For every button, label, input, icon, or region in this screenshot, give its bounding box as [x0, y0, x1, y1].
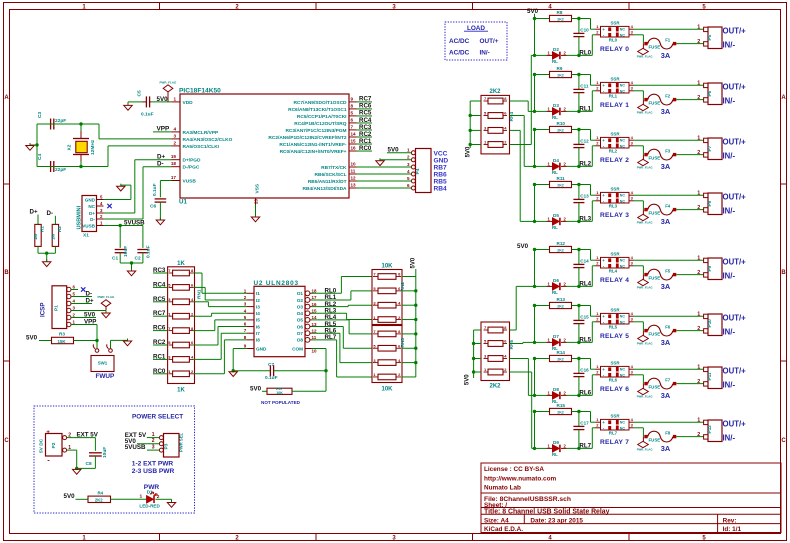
svg-text:SW1: SW1 — [98, 361, 108, 366]
svg-text:PIC18F14K50: PIC18F14K50 — [179, 88, 221, 95]
wire 5V0 rail channel 0 — [534, 19, 536, 56]
connector P12 body — [708, 420, 722, 442]
resistor 10K element 3 — [378, 302, 396, 308]
svg-text:F2: F2 — [665, 94, 671, 99]
svg-text:5V0: 5V0 — [465, 374, 471, 385]
svg-text:5VUSB: 5VUSB — [125, 444, 146, 451]
P4 pins — [411, 151, 415, 155]
svg-text:RB5: RB5 — [434, 179, 448, 186]
svg-text:2K2: 2K2 — [557, 73, 564, 77]
svg-text:C11: C11 — [580, 84, 589, 89]
svg-text:5: 5 — [73, 292, 76, 297]
svg-text:2: 2 — [697, 150, 700, 156]
svg-text:2: 2 — [564, 390, 567, 395]
svg-text:17: 17 — [312, 295, 318, 300]
wires RN1 to U2 inputs — [193, 272, 202, 274]
resistor R1 — [37, 215, 39, 225]
svg-text:O7: O7 — [297, 331, 304, 336]
svg-text:IN/-: IN/- — [723, 207, 736, 216]
svg-text:IN/-: IN/- — [723, 434, 736, 443]
svg-text:3: 3 — [631, 261, 634, 266]
svg-text:2: 2 — [596, 261, 599, 266]
resistor R8 — [550, 15, 572, 21]
svg-text:RC0: RC0 — [153, 368, 166, 375]
svg-text:2: 2 — [596, 30, 599, 35]
svg-text:12: 12 — [312, 328, 318, 333]
power flag at fuse F5 — [638, 279, 649, 285]
capacitor C6 — [155, 198, 167, 200]
svg-text:D6: D6 — [553, 278, 559, 283]
wire P2 pin1 to ground — [67, 449, 77, 451]
wire X1 VUSB 5VUSB net — [104, 225, 143, 227]
resistor 10K element 1 — [378, 274, 396, 280]
connector P1 ICSP body — [52, 286, 67, 329]
svg-text:2: 2 — [596, 86, 599, 91]
svg-text:4: 4 — [631, 190, 634, 195]
svg-text:3A: 3A — [661, 162, 671, 171]
svg-text:RELAY 5: RELAY 5 — [600, 333, 629, 340]
svg-text:4: 4 — [244, 308, 247, 313]
node RC1 label at RN1 — [153, 358, 168, 360]
svg-text:NC: NC — [620, 373, 626, 377]
svg-text:1: 1 — [484, 140, 487, 145]
svg-text:RC1: RC1 — [153, 353, 166, 360]
svg-text:1: 1 — [407, 148, 410, 153]
svg-text:RELAY 4: RELAY 4 — [600, 277, 629, 284]
svg-text:5V0: 5V0 — [527, 8, 539, 15]
ground at U1 VSS — [255, 215, 257, 218]
no-connect X1 NC — [107, 204, 111, 208]
svg-text:2: 2 — [564, 50, 567, 55]
svg-text:2: 2 — [564, 106, 567, 111]
resistor R9 — [550, 71, 572, 77]
svg-text:RELAY 2: RELAY 2 — [600, 157, 629, 164]
svg-text:RC1: RC1 — [359, 138, 372, 145]
border column ticks bottom — [159, 534, 161, 541]
power flag at P1 pin3 — [105, 307, 107, 311]
svg-text:1: 1 — [697, 256, 700, 262]
switch SW1 FWUP — [95, 349, 99, 353]
svg-text:NC: NC — [620, 28, 626, 32]
svg-text:P12: P12 — [707, 425, 712, 434]
svg-text:1: 1 — [244, 288, 247, 293]
svg-text:16: 16 — [351, 146, 357, 151]
svg-text:F8: F8 — [665, 431, 671, 436]
svg-text:D8: D8 — [553, 387, 559, 392]
svg-text:A: A — [781, 95, 786, 101]
LED D1 — [147, 496, 154, 504]
ground at D1 — [171, 500, 173, 503]
wire RN4 r2 to channel2 rail — [510, 115, 525, 117]
ground at P2 — [76, 467, 78, 470]
resistor RN5 element 1 — [488, 327, 503, 333]
node VPP label — [153, 131, 172, 133]
svg-text:2: 2 — [504, 140, 507, 145]
svg-text:5: 5 — [168, 340, 171, 345]
svg-text:PWR_FLAG: PWR_FLAG — [637, 111, 653, 115]
resistor 10K element 6 — [378, 345, 396, 351]
svg-text:RC5: RC5 — [153, 296, 166, 303]
svg-text:RA4/AN3/OSC2/CLKO: RA4/AN3/OSC2/CLKO — [183, 137, 233, 143]
svg-text:AC/DC: AC/DC — [449, 49, 470, 56]
svg-text:NC: NC — [88, 204, 95, 209]
svg-text:4: 4 — [73, 299, 76, 304]
svg-text:RELAY 7: RELAY 7 — [600, 439, 629, 446]
svg-text:1: 1 — [697, 191, 700, 197]
svg-text:1: 1 — [548, 281, 551, 286]
svg-text:X1: X1 — [83, 233, 89, 239]
svg-text:RC2: RC2 — [153, 339, 166, 346]
svg-text:5: 5 — [351, 110, 354, 115]
svg-text:4: 4 — [398, 300, 401, 305]
resistor 10K element 7 — [378, 360, 396, 366]
wire 5V0 rail channel 2 — [534, 130, 536, 167]
wire SSR to connector channel 0 — [634, 28, 704, 30]
svg-text:7: 7 — [168, 326, 171, 331]
svg-text:KiCad E.D.A.: KiCad E.D.A. — [484, 526, 523, 533]
svg-text:RL7: RL7 — [579, 443, 591, 450]
svg-text:OUT/+: OUT/+ — [723, 313, 747, 322]
svg-text:RB6: RB6 — [434, 172, 448, 179]
diode D6 — [535, 285, 547, 287]
svg-text:VDD: VDD — [183, 100, 194, 106]
svg-text:SSR: SSR — [611, 187, 621, 192]
svg-text:3A: 3A — [661, 217, 671, 226]
wire 5V0 rail channel 4 — [534, 250, 536, 287]
resistor R4 — [88, 496, 111, 502]
svg-text:1M: 1M — [50, 234, 55, 240]
svg-text:D+: D+ — [89, 211, 95, 216]
svg-text:PWR_FLAG: PWR_FLAG — [637, 55, 653, 59]
wire 5V0 to VDD — [151, 101, 172, 103]
svg-text:I1: I1 — [256, 291, 260, 296]
svg-text:5V0: 5V0 — [250, 385, 262, 392]
svg-text:RL: RL — [552, 290, 558, 295]
svg-text:15: 15 — [312, 308, 318, 313]
svg-text:NC: NC — [620, 199, 626, 203]
svg-text:2K2: 2K2 — [489, 89, 501, 95]
power flag at fuse F2 — [638, 104, 649, 110]
resistor network RN1 1K body — [168, 267, 195, 384]
svg-text:6: 6 — [73, 285, 76, 290]
svg-text:RC3: RC3 — [359, 124, 372, 131]
node EXT 5V label at P2 — [67, 437, 96, 439]
svg-text:FUSE: FUSE — [649, 385, 661, 390]
wire to SSR pin1 channel 7 — [590, 412, 592, 423]
svg-text:3: 3 — [168, 297, 171, 302]
svg-text:IN/-: IN/- — [723, 328, 736, 337]
U2 COM pin 10 — [305, 348, 312, 350]
svg-text:R4: R4 — [98, 491, 104, 496]
svg-text:+: + — [602, 367, 605, 372]
svg-text:8: 8 — [398, 329, 401, 334]
svg-text:3: 3 — [173, 133, 176, 138]
svg-text:8: 8 — [191, 268, 194, 273]
svg-text:1K: 1K — [177, 261, 185, 267]
svg-text:15K: 15K — [58, 339, 67, 344]
node 5V0 label P1 pin2 — [71, 317, 96, 319]
svg-text:IN/-: IN/- — [480, 49, 490, 56]
node RC0 label at RN1 — [153, 373, 168, 375]
svg-text:2K2: 2K2 — [489, 384, 501, 390]
svg-text:O4: O4 — [297, 311, 304, 316]
svg-text:5V0: 5V0 — [26, 334, 38, 341]
svg-text:IN/-: IN/- — [723, 97, 736, 106]
svg-text:R9: R9 — [557, 66, 563, 71]
svg-text:5V0: 5V0 — [388, 147, 400, 154]
svg-text:8: 8 — [351, 103, 354, 108]
svg-text:1: 1 — [697, 81, 700, 87]
svg-text:RL: RL — [552, 225, 558, 230]
capacitor C7 — [269, 365, 271, 376]
svg-text:NC: NC — [620, 194, 626, 198]
svg-text:SSR: SSR — [611, 252, 621, 257]
svg-text:1: 1 — [484, 367, 487, 372]
svg-text:5: 5 — [100, 194, 103, 199]
svg-text:5V0: 5V0 — [84, 311, 96, 318]
svg-text:5V0: 5V0 — [411, 257, 417, 268]
wire X1 D+ up to U1 — [104, 212, 135, 214]
svg-text:RELAY 1: RELAY 1 — [600, 102, 629, 109]
svg-text:Size: A4: Size: A4 — [484, 518, 509, 525]
power flag at fuse F1 — [638, 48, 649, 54]
svg-text:14: 14 — [312, 315, 318, 320]
svg-text:NC: NC — [620, 89, 626, 93]
svg-text:RL6: RL6 — [579, 390, 591, 397]
node EXT 5V label at P3 — [147, 437, 160, 439]
resistor network RN5 2K2 body — [481, 322, 510, 381]
svg-text:2: 2 — [191, 369, 194, 374]
svg-text:11: 11 — [351, 169, 356, 174]
connector P9 body — [708, 258, 722, 280]
wire RN4 r4 to channel0 rail — [510, 144, 532, 146]
wire U1 VUSB to C6 — [160, 180, 171, 182]
svg-text:O5: O5 — [297, 318, 304, 323]
diode D8 — [535, 394, 547, 396]
wire D1 to ground — [156, 498, 172, 500]
resistor 10K element 5 — [378, 331, 396, 337]
wire RN5 r4 to channel7 rail — [510, 371, 532, 373]
svg-text:5V0: 5V0 — [517, 243, 529, 250]
svg-text:SSR: SSR — [611, 132, 621, 137]
svg-text:D-/PGC: D-/PGC — [183, 165, 200, 171]
svg-text:IN/-: IN/- — [723, 272, 736, 281]
svg-text:2: 2 — [596, 196, 599, 201]
wires U1 RB pins to P4 — [357, 166, 412, 168]
node 5V0 label at P3 — [137, 443, 159, 445]
svg-text:10uF: 10uF — [123, 246, 129, 257]
svg-text:RB4: RB4 — [434, 186, 448, 193]
ground at C6 — [159, 218, 161, 221]
wire 5V0 rail channel 1 — [534, 75, 536, 112]
svg-text:3: 3 — [73, 306, 76, 311]
svg-text:4: 4 — [173, 126, 176, 131]
svg-text:1: 1 — [140, 494, 143, 500]
capacitor C13 — [578, 185, 580, 200]
resistor network RN2 10K body — [372, 270, 402, 325]
svg-text:I2: I2 — [256, 298, 260, 303]
ground at X1 — [120, 184, 122, 187]
svg-text:D+: D+ — [86, 297, 94, 304]
svg-text:R2: R2 — [57, 226, 62, 232]
svg-text:3A: 3A — [661, 107, 671, 116]
svg-text:PWR_FLAG: PWR_FLAG — [160, 80, 177, 84]
svg-text:F6: F6 — [665, 325, 671, 330]
svg-text:5V0: 5V0 — [64, 493, 76, 500]
relay RL5 SSR body — [601, 313, 630, 324]
svg-text:+: + — [602, 258, 605, 263]
svg-text:RC6: RC6 — [359, 103, 372, 110]
svg-text:3: 3 — [484, 125, 487, 130]
svg-text:RELAY 6: RELAY 6 — [600, 386, 629, 393]
svg-text:P10: P10 — [707, 319, 712, 328]
svg-text:FUSE: FUSE — [649, 211, 661, 216]
svg-text:C6: C6 — [150, 204, 156, 210]
svg-text:D7: D7 — [553, 334, 559, 339]
svg-text:0.1uF: 0.1uF — [265, 375, 278, 381]
svg-text:7: 7 — [484, 325, 487, 330]
svg-text:B: B — [4, 270, 9, 276]
svg-text:2K2: 2K2 — [557, 183, 564, 187]
svg-text:RC0: RC0 — [359, 145, 372, 152]
svg-text:3: 3 — [484, 354, 487, 359]
no-connect P1 pin6 — [71, 289, 78, 291]
svg-text:Id: 1/1: Id: 1/1 — [723, 526, 742, 533]
wire crystal left rail — [36, 124, 38, 167]
svg-text:5: 5 — [168, 283, 171, 288]
svg-text:10K: 10K — [276, 391, 283, 395]
svg-text:O1: O1 — [297, 291, 304, 296]
svg-text:NC: NC — [620, 33, 626, 37]
svg-text:0.1uF: 0.1uF — [141, 111, 154, 117]
node RC6 label at RN1 — [153, 330, 168, 332]
svg-text:1: 1 — [100, 220, 103, 225]
svg-text:+: + — [602, 27, 605, 32]
wire 5V0 rail channel 7 — [534, 412, 536, 449]
svg-text:RL2: RL2 — [609, 149, 618, 154]
power flag at fuse F4 — [638, 214, 649, 220]
svg-text:15: 15 — [351, 139, 357, 144]
svg-text:4: 4 — [631, 255, 634, 260]
svg-text:http://www.numato.com: http://www.numato.com — [484, 475, 557, 482]
svg-text:P2: P2 — [51, 442, 57, 448]
svg-text:5: 5 — [484, 339, 487, 344]
resistor RN1 element 5 — [173, 328, 190, 334]
svg-text:6: 6 — [504, 339, 507, 344]
svg-text:RN4: RN4 — [509, 112, 515, 122]
svg-text:FWUP: FWUP — [96, 373, 116, 380]
svg-text:RL1: RL1 — [579, 106, 591, 113]
wire U2 GND to ground and C7 — [233, 348, 247, 350]
svg-text:4: 4 — [398, 358, 401, 363]
svg-text:6: 6 — [191, 283, 194, 288]
power flag at fuse F8 — [638, 441, 649, 447]
svg-text:R15: R15 — [557, 403, 566, 408]
wire R1 R2 to ground — [37, 246, 39, 253]
ground at P1 pin3 — [105, 311, 107, 314]
wire SSR to connector channel 1 — [634, 84, 704, 86]
capacitor C5 — [145, 96, 147, 107]
op-amp U1 PIC18F14K50 body — [180, 94, 349, 198]
resistor RN1 element 4 — [173, 313, 190, 319]
svg-text:RL5: RL5 — [579, 337, 591, 344]
svg-text:FUSE: FUSE — [649, 276, 661, 281]
relay RL3 SSR body — [601, 192, 630, 203]
svg-text:RB7: RB7 — [434, 165, 448, 172]
svg-text:2K2: 2K2 — [557, 128, 564, 132]
wire to SSR pin1 channel 2 — [590, 130, 592, 141]
wire to SSR pin1 channel 1 — [590, 75, 592, 86]
wire R3 to VPP and switch — [74, 340, 98, 342]
svg-text:VUSB: VUSB — [82, 223, 95, 228]
svg-text:C3: C3 — [37, 112, 43, 118]
svg-text:O2: O2 — [297, 298, 304, 303]
svg-text:RC1/AN5/C12IN1-/INT1/VREF-: RC1/AN5/C12IN1-/INT1/VREF- — [279, 142, 347, 148]
svg-text:IN/-: IN/- — [723, 41, 736, 50]
resistor 10K element 4 — [378, 317, 396, 323]
fuse F3 — [634, 145, 644, 147]
svg-text:I8: I8 — [256, 338, 260, 343]
svg-text:RC6/AN8/T13CKI/T1OSC1: RC6/AN8/T13CKI/T1OSC1 — [288, 107, 347, 113]
svg-text:RL2: RL2 — [579, 161, 591, 168]
svg-text:+: + — [602, 193, 605, 198]
svg-text:OUT/+: OUT/+ — [723, 419, 747, 428]
svg-text:P8: P8 — [707, 200, 712, 206]
wire RN5 r1 to channel4 rail — [510, 329, 517, 331]
svg-text:2K2: 2K2 — [557, 410, 564, 414]
resistor R11 — [550, 181, 572, 187]
svg-text:2: 2 — [697, 95, 700, 101]
resistor RN1 element 6 — [173, 342, 190, 348]
relay RL4 SSR body — [601, 257, 630, 268]
resistor R17 not populated — [267, 388, 292, 394]
svg-text:NOT POPULATED: NOT POPULATED — [261, 400, 301, 405]
svg-text:C4: C4 — [37, 154, 43, 160]
svg-text:+: + — [602, 314, 605, 319]
svg-text:2: 2 — [407, 155, 410, 160]
svg-text:RL7: RL7 — [609, 431, 618, 436]
node RC5 label at RN1 — [153, 301, 168, 303]
svg-text:3: 3 — [631, 370, 634, 375]
fuse F5 — [634, 265, 644, 267]
svg-text:7: 7 — [484, 96, 487, 101]
svg-text:3: 3 — [631, 141, 634, 146]
relay RL6 SSR body — [601, 366, 630, 377]
resistor RN1 element 8 — [173, 371, 190, 377]
svg-text:1: 1 — [596, 190, 599, 195]
svg-text:RC2: RC2 — [359, 131, 372, 138]
svg-text:I4: I4 — [256, 311, 260, 316]
svg-text:3A: 3A — [661, 338, 671, 347]
svg-text:1: 1 — [596, 417, 599, 422]
svg-text:RA5/OSC1/CLKI: RA5/OSC1/CLKI — [183, 144, 220, 150]
svg-text:8: 8 — [504, 96, 507, 101]
svg-text:2: 2 — [596, 317, 599, 322]
svg-text:D5: D5 — [553, 213, 559, 218]
svg-text:2K2: 2K2 — [557, 248, 564, 252]
svg-text:P1: P1 — [54, 305, 60, 311]
svg-text:RC3: RC3 — [153, 267, 166, 274]
svg-text:4: 4 — [631, 80, 634, 85]
svg-text:1: 1 — [596, 255, 599, 260]
svg-text:PWR SEL: PWR SEL — [179, 432, 184, 452]
svg-text:COM: COM — [292, 346, 303, 351]
svg-text:2: 2 — [697, 270, 700, 276]
wire gnd to C5 — [128, 101, 143, 103]
svg-text:RL7: RL7 — [325, 334, 337, 341]
resistor R10 — [550, 126, 572, 132]
svg-text:EXT 5V: EXT 5V — [77, 431, 99, 438]
